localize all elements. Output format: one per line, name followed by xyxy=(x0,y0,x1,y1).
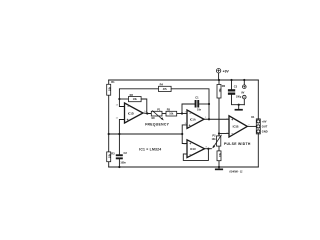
svg-text:OUT: OUT xyxy=(262,125,268,129)
node ground rail C2 xyxy=(118,166,120,168)
wire IC1B output to K1 pin2 xyxy=(247,125,256,127)
resistor R6 xyxy=(217,84,226,98)
wire +9V source lead xyxy=(218,73,220,80)
wire C1 column down to IC1A output xyxy=(208,104,210,119)
node IC1C output xyxy=(207,148,209,150)
wire left column R1 top lead xyxy=(108,80,110,84)
svg-text:014066 - 11: 014066 - 11 xyxy=(229,171,243,174)
node J1 xyxy=(118,98,120,100)
op-amp IC1B xyxy=(227,116,251,137)
svg-text:10k: 10k xyxy=(133,98,138,101)
node P2 top xyxy=(218,132,220,134)
wire IC1D -input bend to node J1 xyxy=(119,99,124,107)
wire IC1C output xyxy=(205,148,212,150)
svg-text:−: − xyxy=(231,132,233,136)
svg-text:IC1D: IC1D xyxy=(128,112,134,116)
wire IC1B -input to P2 top node xyxy=(219,133,229,135)
wire C3 top lead xyxy=(231,80,233,89)
svg-text:C1: C1 xyxy=(195,96,199,100)
wire left column R1-to-R3 xyxy=(108,95,110,152)
svg-text:+: + xyxy=(127,118,129,122)
svg-text:47k: 47k xyxy=(163,88,168,91)
wire K1 pin3 down to ground rail xyxy=(257,134,259,167)
op-amp IC1A xyxy=(185,110,207,128)
svg-text:PULSE WIDTH: PULSE WIDTH xyxy=(224,142,251,146)
svg-text:10n: 10n xyxy=(197,108,202,111)
potentiometer P2 xyxy=(212,134,222,149)
svg-text:1M: 1M xyxy=(151,117,154,120)
svg-text:IC1A: IC1A xyxy=(190,117,196,121)
potentiometer P1 xyxy=(151,108,164,121)
wire ground stub at C3 node xyxy=(238,105,240,109)
node bus-C2 xyxy=(118,133,120,135)
node bus-IC1A/IC1C xyxy=(181,133,183,135)
battery terminal minus xyxy=(243,95,247,99)
wire right rail down to K1 pin1 xyxy=(257,80,259,119)
svg-text:R5: R5 xyxy=(167,108,171,112)
svg-text:IC1B: IC1B xyxy=(233,125,239,129)
svg-text:10k: 10k xyxy=(212,138,217,141)
svg-text:C2: C2 xyxy=(124,151,128,155)
svg-text:IC1C: IC1C xyxy=(190,147,196,151)
power terminal +9V xyxy=(216,69,229,74)
node C1 right top xyxy=(208,103,210,105)
wire top supply rail xyxy=(109,79,259,81)
wire R3 bottom lead xyxy=(108,162,110,167)
wire J1 up to R4 line xyxy=(119,89,158,99)
node bus-R1R3 xyxy=(108,133,110,135)
node IC1A output xyxy=(208,118,210,120)
wire battery minus lead xyxy=(243,99,245,105)
resistor R3 xyxy=(107,152,115,162)
svg-text:K1: K1 xyxy=(251,115,255,119)
capacitor C2 xyxy=(116,151,128,164)
wire reference bus xyxy=(109,133,183,135)
wire ground stub below rail at P2 branch xyxy=(218,167,220,169)
wire R7 bottom to ground rail xyxy=(218,161,220,167)
svg-text:−: − xyxy=(189,112,191,116)
wire R4 right to C1/output column xyxy=(171,89,209,104)
node rail R6 xyxy=(218,79,220,81)
svg-text:+9V: +9V xyxy=(223,69,230,73)
wire IC1C follower feedback loop xyxy=(183,149,208,161)
svg-text:10k: 10k xyxy=(219,152,222,157)
svg-text:10k: 10k xyxy=(108,153,111,158)
wire R6 column from rail to P2 top xyxy=(218,80,220,136)
svg-text:+9V: +9V xyxy=(262,120,267,124)
wire R2 right lead down to IC1D output node xyxy=(141,99,147,114)
svg-text:−: − xyxy=(189,153,191,157)
wire C3 bottom lead to ground node xyxy=(232,95,245,105)
ground symbol at bottom rail xyxy=(215,169,223,171)
resistor R7 xyxy=(217,151,222,161)
op-amp IC1C xyxy=(183,140,207,158)
wire R2 left lead xyxy=(119,98,128,100)
svg-text:P1: P1 xyxy=(157,108,161,112)
wire C1 right to output node xyxy=(199,103,209,105)
svg-text:−: − xyxy=(127,105,129,109)
ground symbol at C3 node xyxy=(235,109,243,111)
node ground rail P2 xyxy=(218,166,220,168)
svg-text:+: + xyxy=(231,118,233,122)
svg-text:GND: GND xyxy=(262,130,268,134)
battery terminal plus xyxy=(243,85,247,89)
svg-text:100n: 100n xyxy=(120,162,126,165)
svg-text:100µ: 100µ xyxy=(236,95,242,98)
svg-text:C3: C3 xyxy=(234,85,238,89)
capacitor C1 xyxy=(195,96,202,112)
wire bus riser to IC1A +input xyxy=(182,125,187,134)
wire IC1A output to IC1B +input xyxy=(204,118,229,120)
op-amp IC1D xyxy=(116,103,148,123)
wire IC1D +input drop to bus and C2 top lead xyxy=(119,120,124,155)
resistor R4 xyxy=(159,83,172,92)
connector K1 xyxy=(251,115,267,134)
wire IC1A feedback to C1 left xyxy=(182,104,195,114)
svg-text:10k: 10k xyxy=(109,86,112,91)
resistor R5 xyxy=(166,108,177,117)
capacitor C3 electrolytic xyxy=(228,85,242,99)
svg-text:9V: 9V xyxy=(241,90,244,94)
svg-text:P2: P2 xyxy=(212,134,216,138)
wire bottom ground rail xyxy=(109,166,259,168)
svg-text:R4: R4 xyxy=(160,83,164,87)
wire bus drop to IC1C +input xyxy=(182,134,187,144)
svg-text:+: + xyxy=(189,142,191,146)
wire IC1D output xyxy=(143,112,151,115)
resistor R1 xyxy=(107,80,115,95)
svg-text:R6: R6 xyxy=(222,84,226,88)
svg-text:+: + xyxy=(189,123,191,127)
wire P1 to R5 xyxy=(162,113,166,115)
svg-text:10k: 10k xyxy=(169,113,174,116)
node IC1D output xyxy=(146,112,148,114)
node C3 ground xyxy=(238,104,240,106)
node IC1A inverting xyxy=(181,112,183,114)
svg-text:R3: R3 xyxy=(111,152,115,156)
wire battery plus lead xyxy=(243,80,245,85)
svg-text:R2: R2 xyxy=(130,93,134,97)
resistor R2 xyxy=(129,93,142,102)
svg-text:IC1 = LM324: IC1 = LM324 xyxy=(139,147,161,151)
wire P2 bottom to R7 xyxy=(218,146,220,151)
svg-text:10k: 10k xyxy=(219,88,222,93)
wire C2 bottom lead xyxy=(118,159,120,167)
wire R5 to IC1A inverting input xyxy=(177,113,187,115)
svg-text:R1: R1 xyxy=(111,80,115,84)
node rail C3 xyxy=(230,79,232,81)
node rail battery xyxy=(243,79,245,81)
svg-text:FREQUENCY: FREQUENCY xyxy=(145,122,169,126)
